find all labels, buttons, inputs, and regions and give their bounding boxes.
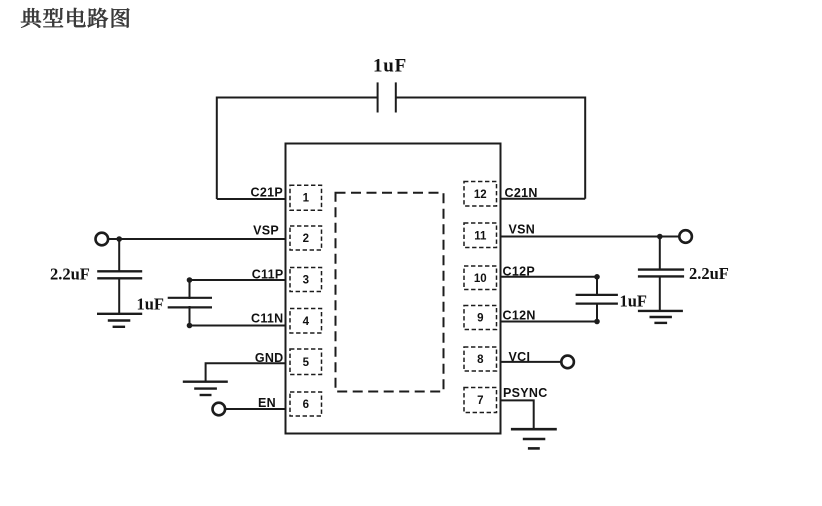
pin 8 box xyxy=(464,347,497,371)
wire C12N pin9 xyxy=(501,321,598,323)
svg-text:10: 10 xyxy=(474,273,487,285)
pin 9 box xyxy=(464,306,497,330)
wire VSP pin2 xyxy=(108,238,285,240)
ground below C1 xyxy=(97,314,142,327)
junction C12N node xyxy=(594,319,600,325)
wire top rail left segment xyxy=(217,98,378,200)
capacitor C5 1uF right plates xyxy=(576,296,618,303)
capacitor C2 1uF top plates xyxy=(378,82,396,112)
svg-text:1uF: 1uF xyxy=(373,55,407,76)
svg-text:C12P: C12P xyxy=(503,265,535,279)
svg-text:9: 9 xyxy=(477,313,483,325)
wire GND pin5 xyxy=(206,363,286,381)
svg-text:VSN: VSN xyxy=(509,223,536,237)
title 典型电路图 xyxy=(21,8,130,28)
svg-text:C11P: C11P xyxy=(252,268,284,282)
svg-text:1uF: 1uF xyxy=(137,295,165,314)
IC U1 inner dashed outline xyxy=(336,193,444,392)
svg-text:C21P: C21P xyxy=(251,186,283,200)
wire C11N pin4 xyxy=(190,325,286,327)
pin 1 box xyxy=(290,185,322,210)
junction C11P node xyxy=(187,277,193,283)
pin 12 box xyxy=(464,182,497,207)
capacitor C1 2.2uF left plates xyxy=(97,271,142,278)
junction VSN node xyxy=(657,234,663,240)
svg-text:4: 4 xyxy=(303,316,310,328)
pin 4 box xyxy=(290,309,322,334)
svg-text:GND: GND xyxy=(255,351,284,365)
pin 3 box xyxy=(290,268,322,292)
svg-text:2: 2 xyxy=(303,233,309,245)
junction VSP node xyxy=(116,236,122,242)
wire C3 vertical xyxy=(189,280,191,326)
wire C21P pin1 xyxy=(217,198,286,200)
svg-text:6: 6 xyxy=(303,399,309,411)
pin 5 box xyxy=(290,349,322,375)
wire VSP to C1 xyxy=(118,239,120,271)
wire VCI pin8 xyxy=(501,361,562,363)
pin 6 box xyxy=(290,392,322,416)
junction C12P node xyxy=(594,274,600,280)
pin 7 box xyxy=(464,388,497,413)
wire PSYNC pin7 xyxy=(501,400,534,429)
svg-text:PSYNC: PSYNC xyxy=(503,386,548,400)
svg-text:7: 7 xyxy=(477,395,483,407)
svg-text:C21N: C21N xyxy=(505,186,538,200)
terminal VSN xyxy=(679,230,692,243)
wire C5 vertical xyxy=(596,277,598,322)
wire EN pin6 xyxy=(225,408,285,410)
svg-text:1: 1 xyxy=(303,193,310,205)
svg-text:2.2uF: 2.2uF xyxy=(50,265,90,284)
svg-text:8: 8 xyxy=(477,354,484,366)
svg-text:C11N: C11N xyxy=(251,312,283,326)
wire C21N pin12 xyxy=(501,198,586,200)
svg-text:3: 3 xyxy=(303,275,309,287)
ground GND pin xyxy=(183,382,228,395)
terminal VSP xyxy=(96,233,109,246)
junction C11N node xyxy=(187,323,193,329)
wire C1 to ground xyxy=(118,278,120,314)
pin 2 box xyxy=(290,226,322,250)
wire C11P pin3 xyxy=(190,279,286,281)
svg-text:2.2uF: 2.2uF xyxy=(689,264,729,283)
svg-text:EN: EN xyxy=(258,396,276,410)
wire top rail right segment xyxy=(396,98,585,199)
ground below C4 xyxy=(638,311,683,323)
terminal VCI xyxy=(561,356,574,369)
IC U1 body xyxy=(286,144,501,434)
pin 10 box xyxy=(464,266,497,290)
capacitor C3 1uF left plates xyxy=(168,299,212,306)
wire C4 to ground xyxy=(659,276,661,311)
svg-text:VCI: VCI xyxy=(509,350,531,364)
svg-text:1uF: 1uF xyxy=(620,292,648,311)
svg-text:5: 5 xyxy=(303,357,310,369)
capacitor C4 2.2uF right plates xyxy=(638,270,684,277)
svg-text:C12N: C12N xyxy=(503,308,536,322)
wire C12P pin10 xyxy=(501,276,598,278)
terminal EN xyxy=(213,403,226,416)
wire VSN to C4 xyxy=(659,237,661,270)
svg-text:11: 11 xyxy=(474,230,487,242)
pin 11 box xyxy=(464,223,497,248)
ground PSYNC xyxy=(511,429,557,448)
svg-text:VSP: VSP xyxy=(253,224,279,238)
wire VSN pin11 xyxy=(501,236,680,238)
svg-text:12: 12 xyxy=(474,189,487,201)
